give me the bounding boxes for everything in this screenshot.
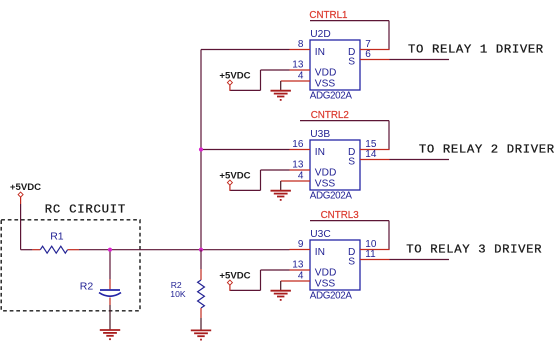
svg-text:CNTRL2: CNTRL2 [311,110,349,121]
pin stub S pin 6 [360,59,390,61]
IC U3C analog switch ADG202A body [310,240,360,290]
svg-text:U3B: U3B [310,129,330,140]
svg-text:6: 6 [365,49,371,60]
svg-text:+5VDC: +5VDC [219,171,250,182]
wire S output to relay 3 [390,259,450,261]
pin stub D pin 7 [360,49,390,51]
text TO RELAY 1 DRIVER [408,42,544,56]
power +5VDC for U2D [219,71,250,91]
svg-text:13: 13 [292,260,304,271]
svg-text:14: 14 [365,149,377,160]
svg-text:CNTRL3: CNTRL3 [321,210,360,221]
wire VDD to +5VDC [230,70,290,90]
pin stub S pin 14 [360,159,390,161]
svg-text:13: 13 [292,160,304,171]
node junction at capacitor tap [108,248,112,252]
IC U2D analog switch ADG202A body [310,40,360,90]
capacitor R2 (in RC box) [99,250,121,305]
svg-text:VDD: VDD [315,167,337,178]
pin name S [348,257,355,268]
svg-text:VSS: VSS [315,278,336,289]
svg-text:VSS: VSS [315,178,336,189]
svg-text:CNTRL1: CNTRL1 [309,10,347,21]
text TO RELAY 2 DRIVER [419,142,555,156]
svg-text:4: 4 [298,171,304,182]
pin number 13 (VDD) [292,160,304,171]
svg-text:RC CIRCUIT: RC CIRCUIT [45,203,126,217]
pin name VSS [315,178,336,189]
pin stub VDD pin 13 [290,169,311,171]
ground for U3B VSS [271,181,291,201]
svg-text:+5VDC: +5VDC [219,71,250,82]
svg-text:9: 9 [298,239,304,250]
svg-text:TO RELAY 1 DRIVER: TO RELAY 1 DRIVER [408,42,544,56]
svg-text:VDD: VDD [315,267,337,278]
pin name VDD [315,267,337,278]
resistor R2 10K (pull-down) [198,250,205,318]
svg-text:16: 16 [292,139,304,150]
svg-text:10K: 10K [170,289,186,299]
svg-text:13: 13 [292,60,304,71]
pin name D [348,247,355,258]
dashed enclosure RC CIRCUIT [1,220,140,311]
pin stub D pin 10 [360,249,390,251]
refdes U2D [310,29,330,40]
svg-text:VSS: VSS [315,78,336,89]
pin name VSS [315,278,336,289]
svg-text:TO RELAY 2 DRIVER: TO RELAY 2 DRIVER [419,142,555,156]
value label ADG202A [310,91,353,102]
svg-text:S: S [348,57,355,68]
value label 10K [170,289,186,299]
pin number 13 (VDD) [292,260,304,271]
wire VDD to +5VDC [230,270,290,290]
svg-text:ADG202A: ADG202A [310,91,353,102]
resistor R1 [32,246,79,253]
wire CNTRL1 horizontal [310,20,389,22]
pin number 13 (VDD) [292,60,304,71]
pin stub VSS pin 4 [281,80,310,82]
ground under R2 10K [191,318,211,341]
value label R1 [50,230,64,242]
net label CNTRL3 [321,210,360,221]
pin stub VDD pin 13 [290,69,311,71]
node junction bus / U3B pin 16 [199,147,203,151]
power +5VDC for U3C [219,271,250,291]
pin number 14 (S) [365,149,377,160]
svg-text:4: 4 [298,71,304,82]
pin number 4 (VSS) [298,271,304,282]
net label CNTRL1 [309,10,347,21]
svg-text:ADG202A: ADG202A [310,291,353,302]
power +5VDC source [10,182,41,204]
IC U3B analog switch ADG202A body [310,140,360,190]
wire bus to U3B pin 16 [201,149,290,151]
wire +5VDC down to R1 [21,204,33,250]
svg-text:S: S [348,257,355,268]
pin name VDD [315,67,337,78]
ground for U2D VSS [271,81,291,101]
wire CNTRL1 vertical to pin 7 [388,21,390,50]
pin number 7 (D) [365,39,371,50]
power +5VDC for U3B [219,171,250,191]
pin number 9 (IN) [298,239,304,250]
pin number 11 (S) [365,249,376,260]
svg-text:R1: R1 [50,230,64,242]
pin number 15 (D) [365,139,377,150]
ground for U3C VSS [271,281,291,301]
pin number 10 (D) [365,239,377,250]
text RC CIRCUIT [45,203,126,217]
wire CNTRL2 vertical to pin 15 [388,121,390,150]
pin name S [348,57,355,68]
pin name S [348,157,355,168]
wire VDD to +5VDC [230,170,290,190]
value label ADG202A [310,191,353,202]
ground under capacitor [100,305,120,340]
pin number 8 (IN) [298,39,304,50]
pin name VSS [315,78,336,89]
wire CNTRL3 horizontal [310,220,389,222]
svg-text:U3C: U3C [310,229,330,240]
pin name IN [315,147,325,158]
svg-text:IN: IN [315,247,325,258]
wire S output to relay 1 [390,59,450,61]
text TO RELAY 3 DRIVER [406,242,542,256]
value label R2 (capacitor) [80,280,94,292]
svg-text:VDD: VDD [315,67,337,78]
pin number 4 (VSS) [298,171,304,182]
svg-text:S: S [348,157,355,168]
svg-text:TO RELAY 3 DRIVER: TO RELAY 3 DRIVER [406,242,542,256]
pin name IN [315,47,325,58]
value label ADG202A [310,291,353,302]
svg-text:IN: IN [315,47,325,58]
pin stub IN pin 9 [290,249,311,251]
node junction bus / main wire / R2 [199,248,203,252]
pin name D [348,147,355,158]
pin stub VSS pin 4 [281,180,310,182]
pin stub IN pin 16 [290,149,311,151]
svg-text:IN: IN [315,147,325,158]
svg-text:U2D: U2D [310,29,330,40]
pin stub S pin 11 [360,259,390,261]
wire CNTRL3 vertical to pin 10 [388,221,390,250]
pin name D [348,47,355,58]
refdes U3B [310,129,330,140]
pin number 6 (S) [365,49,371,60]
pin stub VSS pin 4 [281,280,310,282]
net label CNTRL2 [311,110,349,121]
wire S output to relay 2 [390,159,450,161]
value label R2 [171,280,182,290]
pin name VDD [315,167,337,178]
svg-text:8: 8 [298,39,304,50]
pin stub D pin 15 [360,149,390,151]
svg-text:R2: R2 [80,280,94,292]
svg-text:+5VDC: +5VDC [10,182,41,193]
wire R1 to U3C pin 9 (main node) [79,249,290,251]
pin name IN [315,247,325,258]
refdes U3C [310,229,330,240]
svg-text:4: 4 [298,271,304,282]
pin number 4 (VSS) [298,71,304,82]
svg-text:ADG202A: ADG202A [310,191,353,202]
svg-text:11: 11 [365,249,376,260]
pin stub IN pin 8 [290,49,311,51]
pin number 16 (IN) [292,139,304,150]
pin stub VDD pin 13 [290,269,311,271]
wire bus to U2D pin 8 [201,49,290,51]
svg-text:+5VDC: +5VDC [219,271,250,282]
wire vertical bus to switches [200,50,202,250]
wire CNTRL2 horizontal [300,120,389,122]
